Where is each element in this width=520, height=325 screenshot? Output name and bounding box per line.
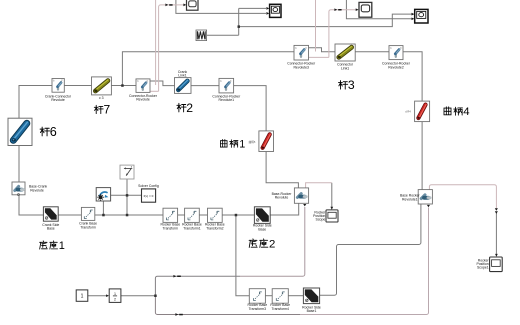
- op: Connector-Rocker Revolute2: [389, 46, 403, 60]
- op: Connector-Rocker Revolute: [136, 79, 150, 93]
- svg-text:2: 2: [114, 297, 116, 301]
- wire pink into revolute3 bottom: [309, 56, 329, 58]
- svg-text:rev: rev: [426, 198, 429, 200]
- svg-text:3: 3: [348, 78, 355, 92]
- label 杆7: [94, 105, 103, 113]
- transform block: Rocker Base Transform2: [208, 208, 223, 222]
- scope block: Scope1: [490, 257, 503, 272]
- converter block top cut: [187, 0, 199, 10]
- mechanism configuration block: [96, 188, 110, 201]
- svg-text:Scope: Scope: [316, 218, 326, 222]
- svg-text:1: 1: [81, 294, 84, 300]
- wire pink cut top 2: [315, 0, 317, 52]
- svg-text:Transform3: Transform3: [249, 307, 267, 311]
- svg-text:Transform4: Transform4: [271, 307, 289, 311]
- link block 杆6 (big blue): [8, 118, 32, 145]
- svg-text:rev: rev: [302, 197, 305, 199]
- wire 杆6 bottom to Base-Crank Revolute: [18, 146, 20, 183]
- svg-text:Revolute1: Revolute1: [219, 98, 235, 102]
- svg-text:c 3: c 3: [99, 96, 104, 100]
- double mark on pink feed: [165, 4, 168, 7]
- wire Transform4 to Rocker Side Base1: [288, 295, 303, 297]
- transform block: Rocker Base Transform1: [185, 208, 200, 222]
- wire mechanism config tap: [102, 201, 104, 215]
- converter block 2: [359, 2, 372, 17]
- scope block: Rocker Position Scope: [326, 210, 338, 222]
- svg-text:1: 1: [59, 240, 65, 252]
- wire loop A junction up toward Base-Rocker Revolute: [155, 276, 240, 296]
- wire Connector Link1 to Revolute2: [355, 51, 389, 53]
- svg-text:Transform1: Transform1: [183, 227, 201, 231]
- wire top cut to left scope bottom input: [176, 0, 266, 13]
- svg-text:Revolute: Revolute: [136, 98, 150, 102]
- label 底座1: [40, 241, 48, 249]
- svg-text:曲柄5: 曲柄5: [249, 140, 256, 144]
- sense port marks below Base-Rocker Revolute1: [427, 205, 430, 207]
- solver config block: [142, 189, 156, 202]
- svg-text:Revolute2: Revolute2: [388, 65, 404, 69]
- transform block: Rocker Base Transform4: [272, 289, 288, 304]
- arrow into right scope top: [412, 13, 415, 16]
- base block: Crank Side Base: [43, 207, 58, 221]
- double mark on pink feed 2: [334, 8, 337, 11]
- transform block: Rocker Base Transform: [163, 208, 178, 222]
- base block: Rocker Side Base: [254, 207, 270, 224]
- svg-text:1: 1: [239, 138, 245, 150]
- wire pink revolute1 sense over to scope1: [429, 185, 496, 210]
- link block 杆7: [92, 77, 112, 95]
- arrow into left scope top: [266, 7, 269, 10]
- svg-text:Transform2: Transform2: [206, 227, 224, 231]
- wire loop B right half into Base-Rocker Revolute1: [300, 208, 429, 315]
- svg-text:6: 6: [50, 125, 57, 139]
- arrow into converter2: [356, 8, 359, 11]
- scope block S1: [270, 4, 281, 17]
- transform block: Rocker Base Transform3: [249, 289, 265, 304]
- wire rail junction down to Transform3: [236, 215, 249, 296]
- label 曲柄4: [444, 107, 451, 115]
- wire Connector-Rocker Revolute to Crank Link1 (step): [150, 81, 175, 86]
- svg-text:d R4: d R4: [405, 109, 411, 113]
- wire junction up to Revolute3 (top long rail): [122, 52, 294, 86]
- arrow into converter1: [183, 4, 186, 7]
- fraction block: [109, 289, 121, 303]
- base block: Rocker Side Base1: [303, 288, 319, 304]
- wire pink into revolute bottom: [150, 90, 159, 92]
- spring block: [196, 30, 207, 41]
- wire Crank Link1 to Connector-Rocker Revolute1: [191, 85, 219, 87]
- svg-text:4: 4: [463, 106, 469, 118]
- arrow down into Scope1: [495, 254, 498, 257]
- op: Base-Rocker Revolute: [294, 188, 308, 203]
- wire spring to scope and branch: [207, 8, 266, 35]
- wire pink to converter2: [329, 10, 356, 58]
- svg-text:Transform: Transform: [80, 226, 96, 230]
- wire pink cut top 1: [155, 0, 157, 85]
- wire rail transform to rocker transforms: [95, 214, 163, 216]
- sense port marks below Base-Rocker Revolute: [303, 204, 306, 206]
- svg-text:2: 2: [186, 101, 193, 115]
- op: Crank-Connector Revolute: [52, 79, 64, 93]
- wire Revolute3 to Connector Link1 (step): [309, 48, 336, 52]
- wire Base-Crank Revolute to Crank Side Base: [19, 195, 43, 215]
- link block Connector Link1: [335, 44, 355, 61]
- svg-text:Revolute1: Revolute1: [402, 197, 418, 201]
- wire 杆6 top to Crank-Connector Revolute: [19, 86, 52, 119]
- arrow into left scope bottom: [266, 12, 269, 15]
- wire 曲柄4 bottom to Base-Rocker Revolute1: [421, 122, 423, 190]
- junction dots: [121, 84, 124, 87]
- arrow into fraction block: [106, 294, 109, 297]
- svg-text:Revolute: Revolute: [51, 98, 65, 102]
- world frame block: [120, 165, 134, 179]
- op: Connector-Rocker Revolute1: [219, 78, 234, 93]
- double mark loop B: [175, 313, 178, 316]
- wire Revolute1 right down into 曲柄1: [234, 86, 267, 131]
- scope block S2: [415, 9, 428, 23]
- svg-text:Scope1: Scope1: [477, 265, 489, 269]
- wire world frame down through solver junction to rail: [126, 179, 128, 215]
- svg-text:Transform: Transform: [163, 227, 179, 231]
- link block 曲柄1 (red): [259, 131, 274, 152]
- arrow down into Rocker Position Scope: [330, 207, 333, 210]
- svg-text:Base1: Base1: [307, 309, 317, 313]
- svg-text:Link1: Link1: [341, 66, 349, 70]
- wire scope1 feed lower gray: [495, 213, 497, 255]
- svg-text:Revolute3: Revolute3: [293, 65, 309, 69]
- constant block 1: [76, 290, 88, 301]
- wire Crank-Connector Revolute to 杆7: [64, 85, 91, 87]
- wire Revolute2 right down into 曲柄4: [403, 52, 422, 101]
- svg-text:Base: Base: [258, 228, 266, 232]
- wire 曲柄1 bottom to Base-Rocker Revolute: [266, 152, 298, 188]
- svg-text:Revolute: Revolute: [275, 196, 289, 200]
- svg-text:f(x) = 0: f(x) = 0: [144, 194, 154, 198]
- op: Base-Rocker Revolute1: [418, 190, 432, 204]
- svg-text:Solver Config: Solver Config: [138, 184, 159, 188]
- pink physical wires: [150, 0, 496, 210]
- arrow into right scope bottom: [412, 17, 415, 20]
- label 曲柄1: [220, 139, 227, 147]
- wire loop B junction down toward Base-Rocker Revolute1: [155, 296, 300, 315]
- double mark loop A: [173, 275, 176, 278]
- wire branch to right scope top input: [239, 14, 412, 27]
- wire Crank Side Base to Crank Base Transform: [58, 214, 81, 216]
- wire top cut to right scope bottom input: [346, 0, 411, 19]
- loop wires (gray-mauve): [155, 207, 428, 315]
- label 杆6: [40, 127, 50, 136]
- op: Connector-Rocker Revolute3: [294, 45, 309, 60]
- wire pink revolute sense to scope: [306, 183, 332, 188]
- wire loop A right half into Base-Rocker Revolute: [240, 207, 305, 276]
- link block Crank Link1: [175, 78, 192, 94]
- wire Rocker Side Base1 to Base-Rocker Revolute1: [320, 204, 421, 295]
- wire mech config to solver config: [111, 194, 142, 196]
- svg-text:Link1: Link1: [178, 74, 186, 78]
- wire into Rocker Position Scope (vertical): [331, 183, 333, 208]
- wire spring vertical real: [238, 8, 240, 35]
- svg-text:7: 7: [104, 103, 111, 117]
- wire constant 1 to fraction: [88, 295, 107, 297]
- label 杆2: [177, 103, 186, 112]
- wire 杆7 to Connector-Rocker Revolute: [111, 85, 136, 87]
- label 底座2: [249, 239, 257, 248]
- link block 曲柄4 (red): [415, 101, 430, 122]
- label 杆3: [338, 81, 347, 90]
- wire fraction to junction: [121, 295, 155, 297]
- svg-text:Revolute: Revolute: [30, 189, 44, 193]
- op: Base-Crank Revolute: [12, 182, 25, 196]
- wire pink to converter1: [159, 5, 184, 91]
- wire Rocker Side Base to Base-Rocker Revolute: [270, 203, 299, 215]
- wire Transform3 to Transform4: [265, 295, 272, 297]
- svg-text:2: 2: [269, 239, 275, 251]
- double mark scope1 drop: [495, 211, 498, 214]
- svg-text:Base: Base: [47, 227, 55, 231]
- transform block: Crank Base Transform: [81, 207, 94, 220]
- wire rail between transforms: [178, 214, 255, 216]
